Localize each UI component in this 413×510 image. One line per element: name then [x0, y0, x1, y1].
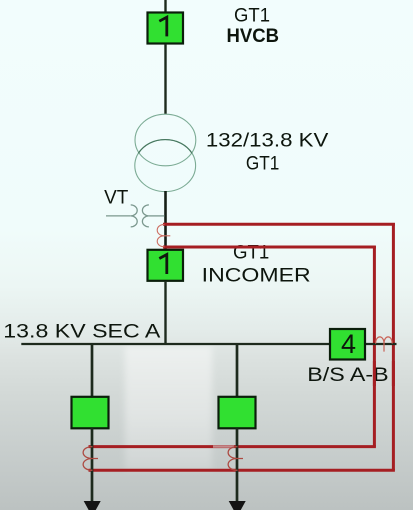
red CT circuit: top line A [163, 223, 395, 226]
svg-text:VT: VT [104, 187, 128, 209]
wire fade on red line B near right feeder [213, 445, 234, 447]
wire below right breaker [236, 428, 239, 503]
label GT1 INCOMER [202, 241, 311, 286]
transformer GT1 132/13.8 KV (two windings) [135, 114, 196, 191]
wire HVCB to transformer [164, 44, 166, 114]
wire incomer to bus [164, 281, 166, 344]
red vertical B overlay (over B/S label) [373, 361, 376, 386]
red bottom line B [89, 445, 376, 448]
CT feeder right (arcs) [228, 447, 243, 471]
red vertical B (inner) [373, 246, 376, 447]
highlight band below bus [125, 346, 212, 470]
svg-text:GT1: GT1 [233, 241, 269, 263]
feeder breaker right (closed) [219, 397, 256, 429]
svg-text:13.8 KV SEC A: 13.8 KV SEC A [3, 320, 160, 342]
feeder wire left from bus [91, 344, 94, 397]
svg-text:GT1: GT1 [234, 5, 270, 27]
breaker 1 GT1 incomer (closed) [148, 250, 184, 281]
breaker 1 GT1 HVCB (closed) [148, 13, 184, 44]
arrow right feeder [229, 501, 246, 510]
CT incomer (arcs on main wire) [157, 224, 170, 246]
svg-text:4: 4 [341, 329, 356, 359]
bus 13.8 KV SEC A [21, 343, 396, 345]
wire transformer to incomer breaker [164, 191, 167, 250]
VT tap stub [106, 215, 131, 217]
CT bus section (arcs on bus) [376, 337, 393, 352]
red bottom line A [89, 469, 395, 472]
VT winding right [142, 205, 149, 227]
red top line B [163, 246, 376, 249]
svg-text:INCOMER: INCOMER [202, 265, 311, 287]
red vertical A overlay (over B/S label) [392, 361, 395, 386]
wire incoming top to HVCB [164, 0, 166, 13]
wire below left breaker [91, 428, 94, 503]
arrow left feeder [84, 501, 101, 510]
svg-text:GT1: GT1 [246, 152, 280, 174]
transformer winding overlap arc (darker) [138, 140, 192, 154]
red vertical A (right) [392, 223, 395, 470]
feeder wire right from bus [236, 344, 239, 397]
VT winding left [131, 205, 138, 227]
svg-text:132/13.8 KV: 132/13.8 KV [206, 130, 328, 152]
CT feeder left (arcs) [83, 447, 98, 471]
feeder breaker left (closed) [72, 397, 109, 429]
label GT1 HVCB [227, 5, 280, 48]
svg-text:B/S A-B: B/S A-B [307, 364, 388, 386]
breaker 4 B/S A-B (closed) [330, 329, 365, 360]
VT wire to main line [149, 215, 165, 217]
label 132/13.8 KV GT1 [206, 130, 328, 175]
svg-text:HVCB: HVCB [227, 25, 280, 47]
